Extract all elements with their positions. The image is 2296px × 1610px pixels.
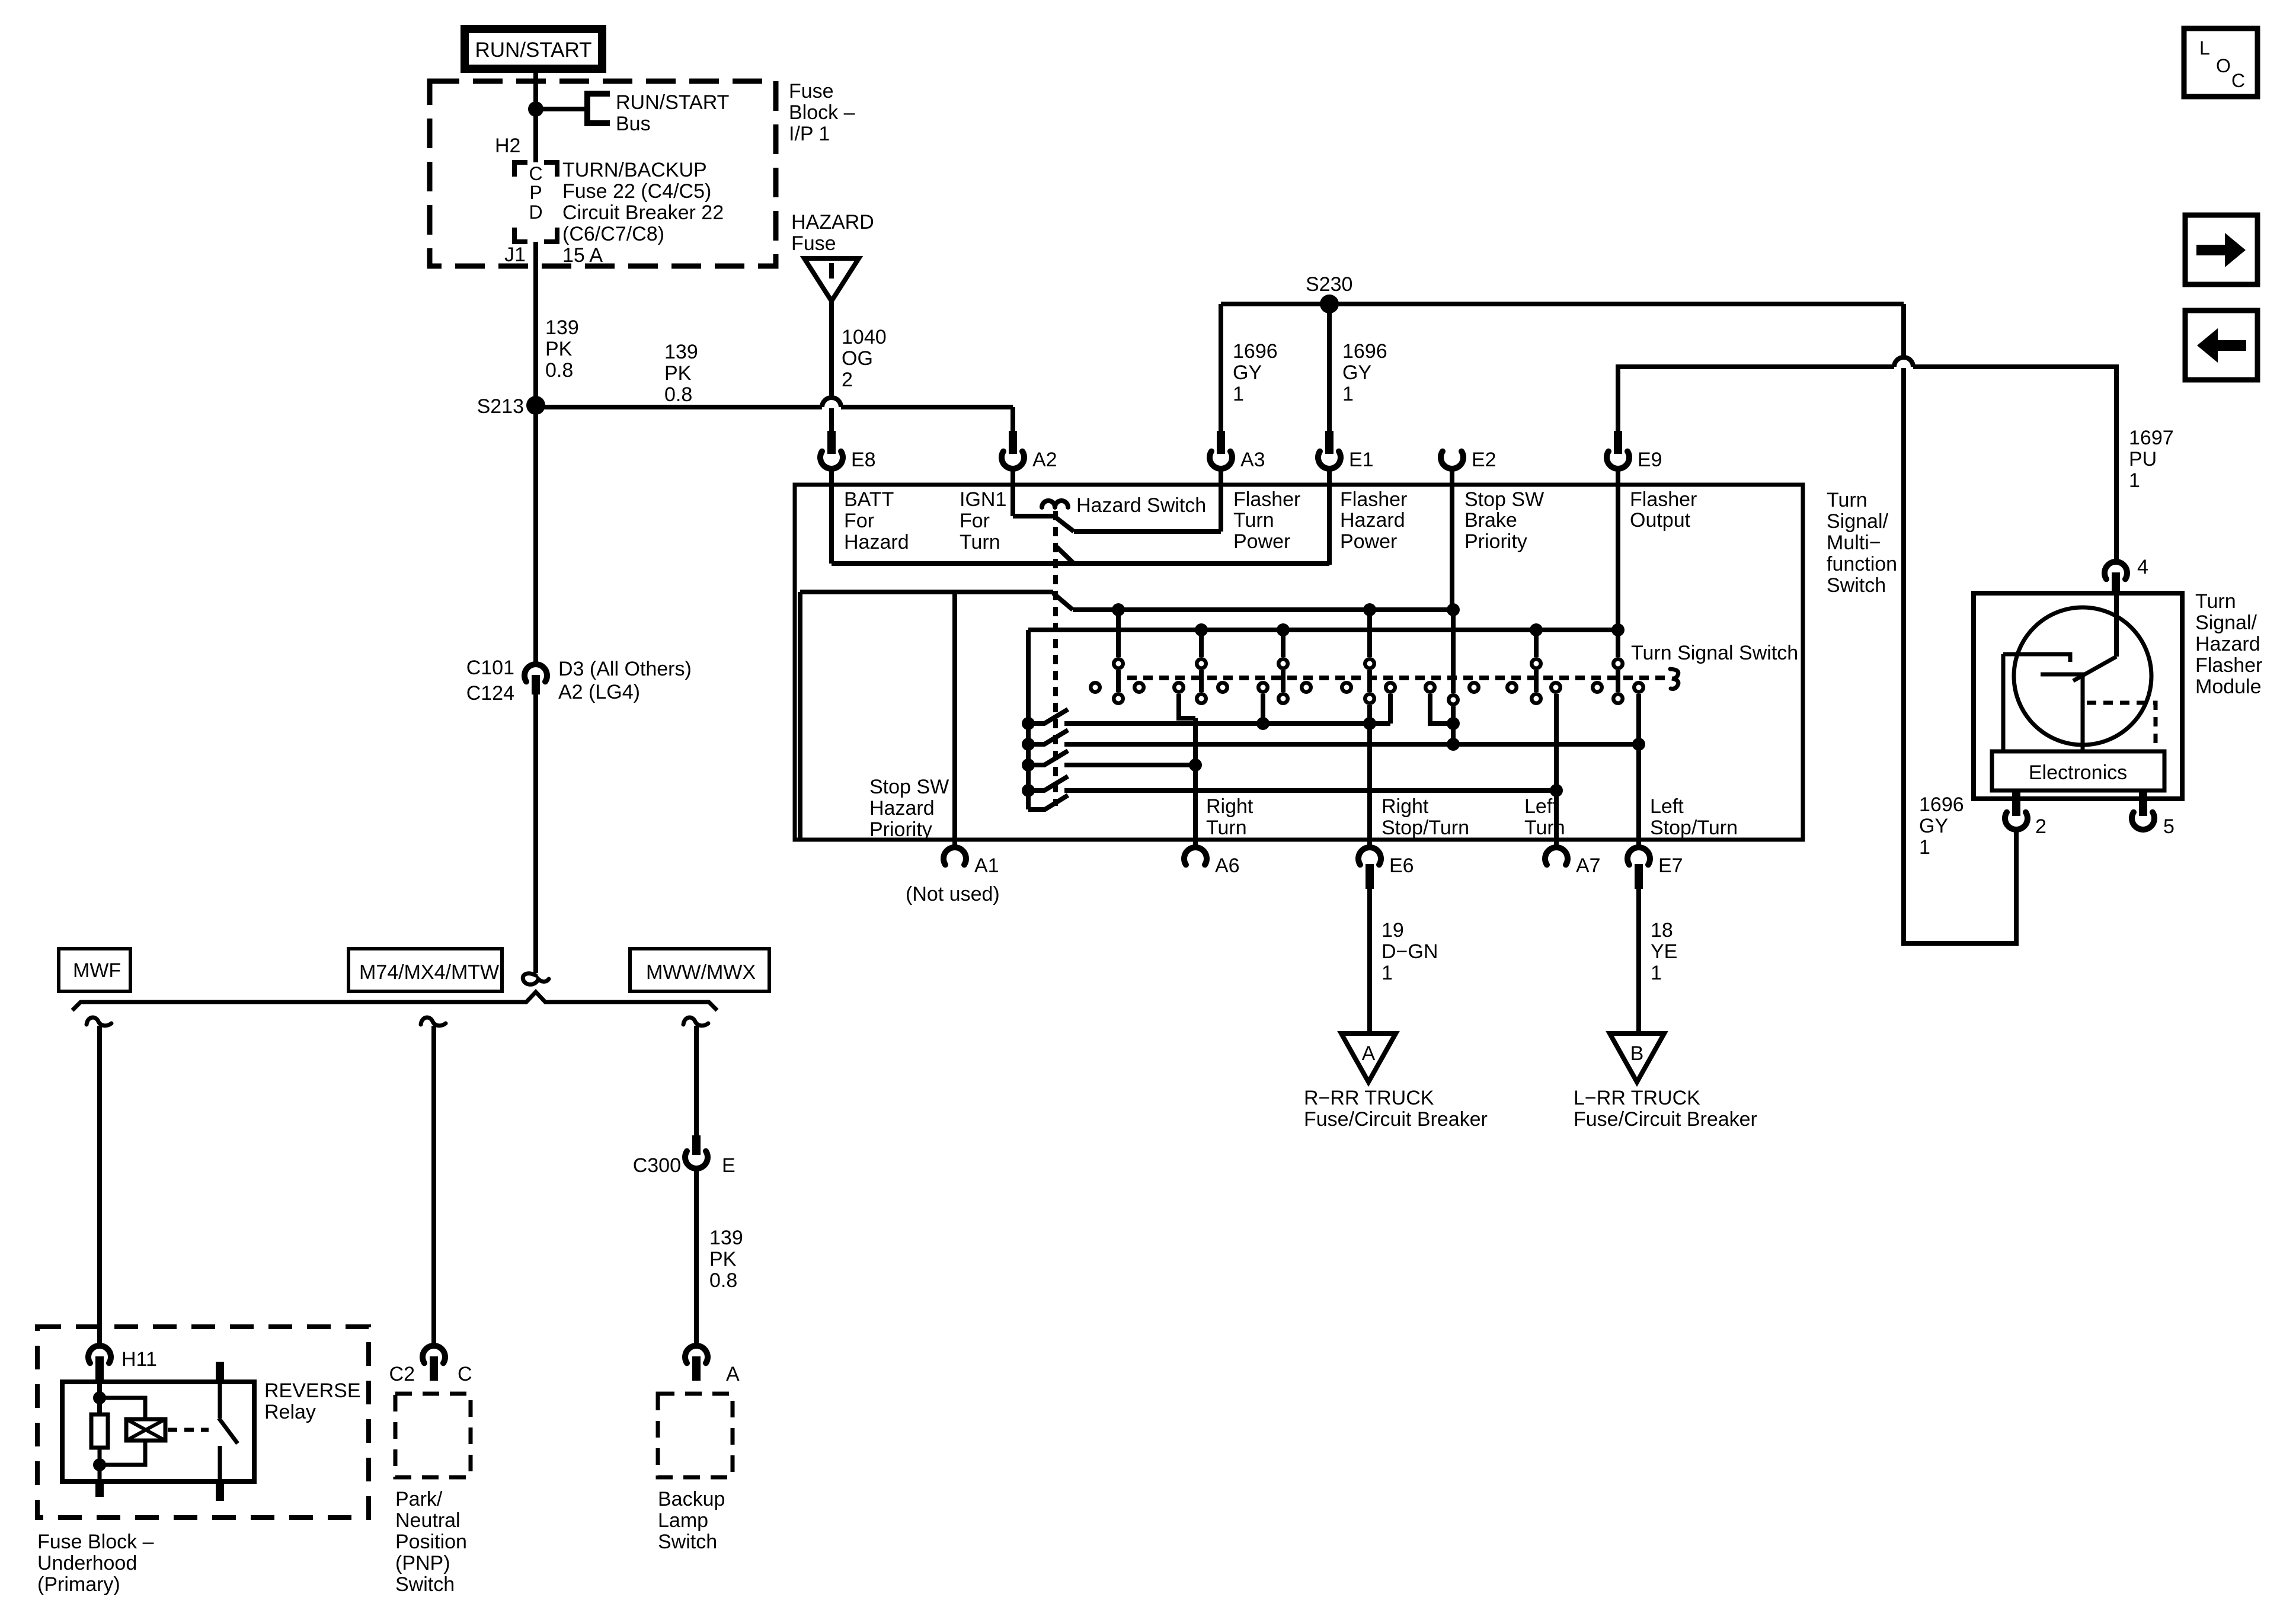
svg-text:(Primary): (Primary) [37,1573,120,1596]
svg-text:E9: E9 [1638,449,1662,471]
wire pin 2 down [2014,831,2019,943]
wire E9 into box [1616,468,1620,630]
wire break curl [523,974,549,985]
wire relay to ground stub [98,1465,102,1481]
harness code box M74/MX4/MTW [348,949,502,991]
svg-text:A1: A1 [974,854,999,877]
svg-text:15 A: 15 A [562,244,603,267]
svg-text:PU: PU [2129,448,2157,470]
svg-text:1696: 1696 [1233,340,1278,363]
svg-text:5: 5 [2163,815,2175,838]
wire hazard fuse to E8 [829,301,834,396]
relay switch contact [216,1362,224,1382]
connector E7 [1627,847,1650,865]
wire stop sw hazard priority [800,590,1053,594]
svg-text:R−RR TRUCK: R−RR TRUCK [1304,1087,1434,1109]
svg-text:OG: OG [842,347,873,370]
svg-text:19: 19 [1382,919,1404,942]
wire E1 into box [1327,468,1332,565]
svg-text:Hazard: Hazard [1340,509,1405,532]
wire S230 to A3 [1219,304,1223,431]
svg-text:139: 139 [545,316,579,339]
flasher relay circle [2014,607,2151,745]
wire row 4 to A7 [1064,788,1556,793]
svg-text:GY: GY [1919,815,1948,837]
svg-text:(PNP): (PNP) [395,1552,450,1574]
svg-text:(Not used): (Not used) [906,883,1000,905]
svg-text:C300: C300 [633,1154,681,1177]
svg-text:Underhood: Underhood [37,1552,137,1574]
svg-text:Priority: Priority [869,818,932,841]
svg-text:1: 1 [1382,962,1393,984]
svg-text:Turn Signal Switch: Turn Signal Switch [1631,642,1798,664]
svg-text:O: O [2216,55,2231,76]
wire branch MWW to C300 [694,1026,699,1135]
wire C300 to backup lamp switch [694,1170,699,1343]
svg-text:Stop SW: Stop SW [1464,488,1544,511]
harness code box MWW/MWX [630,949,769,991]
svg-text:Hazard Switch: Hazard Switch [1076,494,1206,517]
flasher output contact [2041,674,2083,751]
flasher switch blade [2073,657,2116,681]
svg-text:Fuse Block –: Fuse Block – [37,1531,154,1553]
hazard fuse symbol [804,258,859,301]
wire left leg to electronics [2001,654,2006,751]
svg-text:RUN/START: RUN/START [616,91,729,114]
connector A6 [1184,847,1207,865]
svg-text:REVERSE: REVERSE [264,1379,361,1402]
hazard switch blade lower [1057,547,1074,564]
connector pin 4 [2105,562,2127,579]
node junction dot [528,101,543,117]
svg-text:A: A [1362,1042,1376,1065]
svg-text:P: P [529,182,542,203]
svg-text:MWF: MWF [73,959,121,982]
relay coil return [100,1441,145,1465]
wire S230 horizontal [1221,302,1904,306]
resistor [91,1414,108,1448]
turn signal switch actuator dashed line [1127,676,1670,680]
svg-text:Multi−: Multi− [1827,532,1881,554]
svg-text:1: 1 [2129,469,2140,492]
svg-text:Position: Position [395,1531,467,1553]
svg-text:1: 1 [1651,962,1662,984]
connector H11 [88,1346,111,1363]
wire fuse block to S213 [533,266,538,405]
svg-text:1696: 1696 [1919,793,1964,816]
svg-text:BATT: BATT [844,488,894,511]
reverse relay box [62,1382,254,1481]
svg-text:E: E [722,1154,736,1177]
wire A7 vertical [1554,694,1559,847]
blade stop sw to bus [1053,593,1073,610]
relay actuator dashes [168,1428,209,1432]
wire S213 to C101 [533,405,538,662]
wire S213 to A2 with crossover hop [536,405,822,409]
contact pairs upper and lower [1114,659,1123,668]
svg-text:J1: J1 [504,244,526,266]
branch break curl [421,1017,446,1026]
svg-text:0.8: 0.8 [664,383,692,406]
svg-text:1697: 1697 [2129,427,2174,449]
wire node to bus bar [536,107,587,111]
turn signal / multi-function switch box [795,485,1803,840]
svg-text:Turn: Turn [1206,817,1247,839]
svg-text:S230: S230 [1306,273,1352,296]
connector A2 [1009,431,1017,454]
svg-text:Right: Right [1206,795,1253,818]
svg-text:1: 1 [1919,836,1930,859]
hazard switch actuator dashed line [1053,511,1058,806]
harness code box MWF [59,949,130,991]
svg-text:L−RR TRUCK: L−RR TRUCK [1574,1087,1700,1109]
wire branch MWF to H11 [97,1026,102,1344]
splice S213 [526,396,545,415]
svg-text:A3: A3 [1240,449,1265,471]
off-page connector A triangle [1341,1033,1396,1082]
wire E2 lower vertical [1451,706,1456,744]
wire E2 into box [1450,468,1454,610]
svg-text:RUN/START: RUN/START [475,39,591,62]
svg-text:function: function [1827,553,1897,575]
svg-text:A6: A6 [1215,854,1240,877]
splice S230 [1320,295,1339,313]
wire A6 vertical [1193,718,1198,847]
connector E6 [1358,847,1381,865]
svg-text:Turn: Turn [960,531,1000,553]
wire to relay coil [100,1398,145,1419]
wire internal bus lower [1028,628,1619,632]
right arrow box [2185,215,2257,284]
svg-text:Hazard: Hazard [2195,633,2260,655]
svg-text:Signal/: Signal/ [2195,612,2257,634]
contact circles on actuator line [1091,683,1100,692]
svg-text:Fuse/Circuit Breaker: Fuse/Circuit Breaker [1304,1108,1488,1131]
svg-text:C101: C101 [466,657,514,679]
svg-text:TURN/BACKUP: TURN/BACKUP [562,159,707,181]
connector E9 [1614,431,1622,454]
svg-text:D3 (All Others): D3 (All Others) [558,658,692,680]
wire C101 to harness split [533,694,538,973]
svg-text:Bus: Bus [616,113,651,135]
harness spread bus [72,992,717,1010]
svg-text:E8: E8 [851,449,876,471]
wire right turn feed row 1 [1064,721,1390,726]
LOC legend box [2184,28,2257,97]
svg-text:Module: Module [2195,676,2262,698]
svg-text:E2: E2 [1472,449,1496,471]
svg-text:YE: YE [1651,940,1677,963]
wire A2 into box [1011,468,1015,516]
svg-text:Block –: Block – [789,101,855,124]
svg-text:Turn: Turn [2195,590,2236,613]
actuator end hook [1670,669,1678,689]
svg-text:139: 139 [709,1227,743,1249]
backup lamp switch dashed box [658,1394,733,1477]
svg-text:Left: Left [1650,795,1684,818]
svg-text:1696: 1696 [1342,340,1387,363]
svg-text:GY: GY [1233,361,1262,384]
wire J1 to box edge [533,242,538,266]
svg-text:M74/MX4/MTW: M74/MX4/MTW [359,961,499,984]
svg-text:E1: E1 [1349,449,1374,471]
svg-text:For: For [844,510,874,532]
hazard switch blade upper [1056,517,1074,532]
svg-text:For: For [960,510,990,532]
wire branch M74 to C2 [431,1026,436,1344]
svg-text:C: C [458,1363,472,1385]
svg-text:Circuit Breaker 22: Circuit Breaker 22 [562,201,724,224]
svg-text:Hazard: Hazard [844,531,909,553]
svg-text:MWW/MWX: MWW/MWX [646,961,756,984]
svg-text:0.8: 0.8 [545,359,573,382]
connector A3 [1217,431,1225,454]
svg-text:Turn: Turn [1524,817,1565,839]
wire E7 to connector B (18 YE) [1636,889,1641,1033]
wire E6 vertical [1367,705,1372,724]
svg-text:Stop/Turn: Stop/Turn [1382,817,1469,839]
wire RUN/START box to node [533,73,538,109]
svg-text:D−GN: D−GN [1382,940,1438,963]
svg-text:PK: PK [709,1248,737,1270]
svg-text:Lamp: Lamp [658,1509,708,1532]
svg-text:Switch: Switch [1827,574,1886,597]
actuator dashed link [2087,703,2156,751]
wire E7 vertical [1636,694,1641,847]
svg-text:Flasher: Flasher [1340,488,1407,511]
svg-text:C124: C124 [466,682,514,705]
connector C101/C124 [525,664,547,681]
svg-text:Flasher: Flasher [1630,488,1697,511]
svg-text:(C6/C7/C8): (C6/C7/C8) [562,223,664,245]
left arrow box [2185,311,2257,380]
svg-text:Switch: Switch [658,1531,717,1553]
wire S230 down right side to module pin 2 [1901,304,1906,357]
svg-text:GY: GY [1342,361,1371,384]
wire E8 into box [829,468,834,564]
wire E6 to connector A (19 D-GN) [1367,889,1372,1033]
svg-text:0.8: 0.8 [709,1269,737,1292]
svg-text:Electronics: Electronics [2029,761,2127,784]
electronics box [1992,751,2164,790]
wire row 3 to A6 [1064,763,1195,767]
wire H11 into relay [97,1382,102,1414]
svg-text:1: 1 [1342,383,1354,405]
svg-text:I/P 1: I/P 1 [789,123,830,145]
connector A7 [1545,847,1568,865]
svg-text:Park/: Park/ [395,1488,443,1510]
connector A backup lamp switch [685,1346,708,1363]
svg-text:H2: H2 [495,135,520,157]
svg-text:E7: E7 [1658,854,1683,877]
inner vertical at box left [798,592,802,838]
hazard switch contact symbol [1042,501,1068,507]
svg-text:H11: H11 [121,1348,157,1371]
wire A3 into box [1219,468,1223,532]
wire row 2 to E7 [1064,742,1639,747]
svg-text:Neutral: Neutral [395,1509,461,1532]
wire E9 to flasher module pin 4 (1697 PU) with hop [1618,367,1894,438]
svg-text:Left: Left [1524,795,1558,818]
off-page connector B triangle [1610,1033,1664,1082]
connector pin 2 [2012,790,2020,816]
wire pole feeds above circles [1116,610,1121,657]
svg-text:Switch: Switch [395,1573,455,1596]
svg-text:PK: PK [545,338,573,360]
svg-text:Fuse: Fuse [791,232,836,255]
svg-text:4: 4 [2137,556,2148,578]
connector C300 [692,1135,701,1155]
branch break curl [87,1017,111,1026]
svg-text:S213: S213 [477,395,524,418]
svg-text:IGN1: IGN1 [960,488,1006,511]
wire E8 to E1 (flasher hazard power) [832,561,1329,566]
connector E1 [1325,431,1334,454]
svg-text:Flasher: Flasher [1233,488,1300,511]
svg-text:Right: Right [1382,795,1429,818]
svg-text:A7: A7 [1576,854,1601,877]
svg-text:Turn: Turn [1233,509,1274,532]
svg-text:Stop/Turn: Stop/Turn [1650,817,1738,839]
wire E2 pole feed [1451,610,1456,693]
contact lower only at E2 pole [1448,695,1458,705]
flasher fixed contact [2003,654,2070,662]
wire H2 to fuse CPD [533,109,538,162]
svg-text:Fuse: Fuse [789,80,834,103]
svg-text:Relay: Relay [264,1401,316,1423]
stop sw hazard priority switch stack [1026,630,1031,809]
svg-text:A: A [726,1363,740,1385]
fuse block underhood dashed box [37,1327,369,1518]
wire pin 4 into module [2114,593,2119,657]
svg-text:Brake: Brake [1464,509,1517,532]
svg-text:Flasher: Flasher [2195,654,2262,677]
wire hazard switch to A3 (flasher turn power) [1074,529,1221,534]
fuse block I/P dashed box [430,81,776,266]
svg-text:1040: 1040 [842,326,887,348]
svg-text:C: C [529,163,542,184]
svg-text:C: C [2231,70,2245,91]
svg-text:B: B [1630,1042,1644,1065]
svg-text:2: 2 [2035,815,2046,838]
svg-text:18: 18 [1651,919,1673,942]
svg-text:Power: Power [1233,530,1290,553]
svg-text:Fuse 22 (C4/C5): Fuse 22 (C4/C5) [562,180,711,203]
branch break curl [683,1017,708,1026]
relay coil [126,1419,165,1441]
connector pin 5 [2139,790,2147,816]
connector E2 [1441,452,1463,469]
wire S230 to E1 [1327,304,1332,431]
svg-text:C2: C2 [389,1363,415,1385]
svg-text:Turn: Turn [1827,489,1868,511]
connector C2 [423,1346,445,1363]
wire A1 vertical [952,592,957,845]
svg-text:D: D [529,201,542,223]
wire contact tails [1261,694,1265,724]
connector A1 [944,847,966,865]
svg-text:Signal/: Signal/ [1827,510,1889,533]
svg-text:Hazard: Hazard [869,797,935,820]
svg-text:L: L [2199,37,2210,59]
svg-text:2: 2 [842,369,853,391]
svg-text:Stop SW: Stop SW [869,776,949,798]
fuse/circuit breaker CPD symbol [514,162,527,177]
svg-text:Priority: Priority [1464,530,1527,553]
PNP switch dashed box [395,1394,471,1477]
wire internal bus upper [1073,607,1453,612]
svg-text:Backup: Backup [658,1488,725,1510]
svg-text:PK: PK [664,362,692,385]
svg-text:A2 (LG4): A2 (LG4) [558,681,640,703]
svg-text:1: 1 [1233,383,1244,405]
svg-text:139: 139 [664,341,698,363]
svg-text:A2: A2 [1032,449,1057,471]
svg-text:Fuse/Circuit Breaker: Fuse/Circuit Breaker [1574,1108,1757,1131]
power feed box RUN/START [465,29,602,69]
svg-text:E6: E6 [1389,854,1414,877]
svg-text:Power: Power [1340,530,1397,553]
svg-text:Output: Output [1630,509,1691,532]
wire A2 to hazard switch [1013,514,1054,518]
turn signal/hazard flasher module box [1974,593,2182,799]
connector E8 [827,431,836,454]
svg-text:HAZARD: HAZARD [791,211,874,233]
relay switch blade [219,1418,238,1443]
bus bar symbol [584,91,590,126]
